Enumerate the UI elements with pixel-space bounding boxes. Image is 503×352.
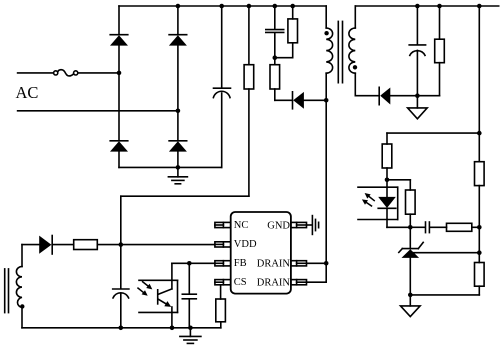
node VDD cap bottom junction [119,326,124,331]
wire startup to VDD cap [121,195,249,197]
ground primary rail [180,328,201,344]
wire bridge left column middle [118,45,120,140]
node TL431 cathode junction [408,225,413,230]
wire top bus [119,5,326,7]
transistor U3 TL431 [399,227,423,295]
svg-text:FB: FB [234,258,247,269]
fuse F1 [54,70,78,76]
transformer T1 core [338,21,342,82]
diode D4 [169,141,187,152]
wire LED cathode to TL431 node [387,226,410,228]
pin CS box [215,280,231,285]
node comp network junction right [477,225,482,230]
resistor R8 bias [406,180,416,228]
resistor R5 divider upper [475,162,485,263]
wire drain pin 2 [307,263,327,282]
wire secondary top rail [355,5,498,7]
node AC line 1 junction [117,71,122,76]
node drain top junction [324,98,329,103]
diode D5 clamp [293,92,304,109]
diode D2 [169,35,187,46]
wire resistor to VDD pin [97,244,215,246]
node TL431 anode junction [408,293,413,298]
diode D3 [110,141,128,152]
capacitor C1 bulk [213,6,230,167]
wire FB to opto collector [171,263,173,289]
node secondary rail dots [415,4,482,9]
wire rail to CS resistor [220,322,222,328]
node drain pin junction [324,261,329,266]
transistor Q1 opto phototransistor [158,289,172,328]
diode D7 VDD [39,236,52,255]
transformer T1 primary winding [326,6,332,100]
wire VDD rail aux [22,244,39,246]
resistor R2 snubber [288,6,298,58]
pin DRAIN1 box [291,261,307,266]
node aux winding phase dot [20,304,24,308]
wire snubber bottom [275,57,293,59]
wire primary ground rail [22,327,221,329]
wire bridge right column top [177,6,179,34]
node rail junction opto [170,326,175,331]
node feedback tap junction [477,131,482,136]
svg-text:AC: AC [16,83,39,102]
wire VDD cap column [120,196,122,288]
capacitor C5 VDD [113,289,129,328]
node AC line 2 junction [176,109,181,114]
diode D6 output [379,87,390,104]
resistor R10 VDD [74,240,98,250]
capacitor C6 FB [182,263,196,328]
wire comp network left [410,226,424,228]
wire AC line 1 right [78,72,119,74]
diode D1 [110,35,128,46]
node output cap bottom junction [415,93,420,98]
resistor R9 comp [447,223,472,231]
svg-text:DRAIN: DRAIN [257,259,291,270]
node T1 secondary phase dot [353,65,357,69]
resistor R6 divider lower [475,263,485,295]
svg-text:GND: GND [267,220,290,231]
wire bridge right column middle [177,45,179,140]
node rail junction FB cap [188,326,193,331]
inductor L1 core [5,269,9,313]
wire bridge right column bottom [177,151,179,167]
svg-text:DRAIN: DRAIN [257,278,291,289]
node opto light arrows receiver [138,282,152,296]
wire AC line 2 [18,110,178,112]
capacitor C2 snubber [266,6,284,58]
node snubber junction [273,55,278,60]
wire secondary bottom [355,95,378,97]
capacitor C3 output [409,6,425,96]
node top bus junction dots [176,4,295,9]
inductor L1 aux winding [16,245,22,328]
pin VDD box [215,242,231,247]
transformer T1 secondary winding [349,6,355,96]
wire output diode to cap [390,95,439,97]
wire FB net [172,262,215,264]
wire right column top [478,6,480,162]
node bridge bottom junction [176,165,181,170]
svg-text:CS: CS [234,277,247,288]
wire AC line 1 left [18,72,54,74]
capacitor C4 comp [426,222,430,233]
svg-text:VDD: VDD [234,239,257,250]
optocoupler U2B phototransistor box [139,280,178,312]
resistor R4 output load [435,6,445,96]
wire drain column [325,100,327,263]
resistor R3 clamp [270,58,280,101]
wire to bias resistor [387,179,410,181]
pin NC box [215,222,231,227]
wire clamp to diode [275,99,292,101]
svg-text:NC: NC [234,220,249,231]
optocoupler U2A LED box [358,187,398,219]
ground bridge [168,167,187,183]
resistor R1 startup [244,6,254,196]
wire bridge left column bottom [118,151,120,167]
node VDD junction [119,242,124,247]
resistor R7 feedback [382,133,392,180]
wire drain pin 1 [307,262,327,264]
pin GND box [291,222,307,227]
ground TL431 [401,295,421,317]
pin FB box [215,261,231,266]
wire clamp diode to drain [304,99,326,101]
op-amp U1 controller body [231,212,291,294]
resistor R11 CS [216,285,226,322]
ground secondary output [408,96,428,119]
node ref divider junction [477,250,482,255]
wire divider bottom [410,294,479,296]
wire bridge bottom bus [119,166,222,168]
node LED top junction [385,178,390,183]
ground IC GND pin [307,216,319,235]
wire bridge left column top [118,6,120,34]
wire TL431 ref [414,252,480,254]
wire comp middle [430,226,446,228]
node T1 primary phase dot [324,31,328,35]
wire diode to resistor [52,244,73,246]
wire feedback tap [387,132,479,134]
pin DRAIN2 box [291,280,307,285]
node opto light arrows emitter [362,193,374,206]
node FB cap junction [187,261,192,266]
wire comp right [472,226,480,228]
diode U2A opto LED [378,180,396,228]
